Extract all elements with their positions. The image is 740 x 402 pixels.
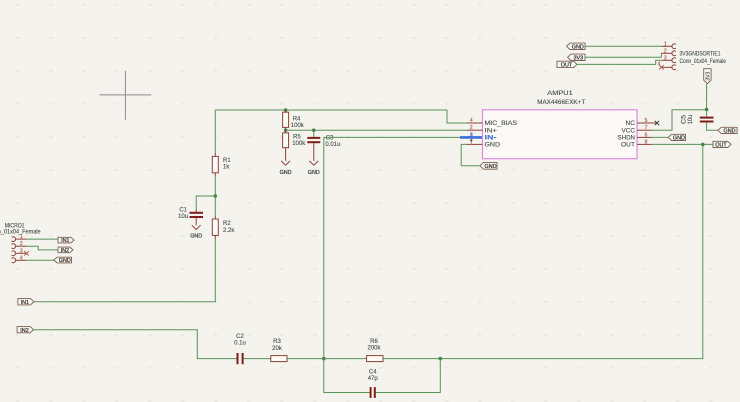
wire C2 to R3 — [244, 358, 271, 360]
svg-text:R4: R4 — [293, 116, 301, 122]
svg-text:Conn_01x04_Female: Conn_01x04_Female — [680, 59, 727, 65]
svg-text:GND: GND — [673, 136, 685, 142]
ground symbol below C1 — [192, 225, 201, 230]
wire R2 down to IN1 row — [34, 239, 216, 302]
svg-text:IN2: IN2 — [20, 328, 28, 334]
global label GND at C5 — [718, 127, 737, 134]
svg-text:2.2k: 2.2k — [223, 228, 235, 234]
wire OUT pin to label — [652, 143, 713, 145]
svg-text:C3: C3 — [326, 136, 334, 142]
svg-text:4: 4 — [20, 255, 23, 261]
node junction dot near pin 1 — [470, 139, 472, 141]
svg-text:10u: 10u — [688, 115, 694, 125]
svg-text:R5: R5 — [293, 134, 301, 140]
wire IN- horizontal — [324, 136, 460, 138]
pin 6 SHDN — [618, 132, 653, 141]
pin 5 NC with no-connect cross — [626, 118, 660, 127]
connector J2 pin 4 unconnected — [658, 62, 676, 70]
resistor R4 100k — [283, 110, 305, 130]
connector MICRO1 pin 2 — [12, 241, 27, 248]
resistor R3 — [271, 339, 287, 361]
svg-text:1: 1 — [20, 234, 23, 240]
wire IN- highlighted segment — [460, 136, 483, 139]
pin 2 IN+ — [467, 125, 498, 134]
svg-text:IN1: IN1 — [61, 238, 69, 244]
node junction feedback left — [322, 357, 326, 361]
svg-text:R2: R2 — [223, 221, 231, 227]
svg-text:GND: GND — [724, 128, 736, 134]
wire MIC_BIAS drop to pin 4 — [447, 110, 467, 123]
global label GND at connector — [54, 257, 72, 264]
svg-text:1: 1 — [470, 141, 473, 147]
global label OUT top left trio — [557, 61, 577, 68]
connector MICRO1 pin 3 unconnected — [12, 248, 29, 255]
svg-text:47p: 47p — [368, 376, 379, 382]
svg-text:3: 3 — [20, 248, 23, 254]
svg-text:MICRO1: MICRO1 — [5, 223, 25, 229]
capacitor C5 10u — [682, 114, 714, 124]
node junction R4/R5 IN+ — [284, 128, 288, 132]
capacitor C3 0.01u — [307, 130, 340, 149]
svg-text:IN-: IN- — [485, 135, 497, 142]
svg-text:7: 7 — [645, 125, 648, 131]
svg-text:C5: C5 — [682, 114, 688, 124]
wire SHDN to GND label — [652, 136, 668, 138]
svg-text:20k: 20k — [272, 346, 283, 352]
svg-text:NC: NC — [626, 120, 636, 127]
svg-text:AMPU1: AMPU1 — [547, 90, 573, 97]
wire between R1 and R2 — [214, 176, 216, 215]
svg-text:3V3: 3V3 — [574, 55, 584, 61]
svg-text:SHDN: SHDN — [618, 135, 636, 142]
svg-text:2: 2 — [664, 48, 667, 54]
svg-text:OUT: OUT — [621, 142, 635, 149]
global label IN1 (lower left) — [18, 299, 34, 306]
wire OUT to connector pin 3 — [577, 60, 661, 64]
svg-text:3: 3 — [470, 132, 473, 138]
node junction R4 top — [284, 108, 288, 112]
svg-text:3V3GNDSORTIE1: 3V3GNDSORTIE1 — [680, 52, 722, 58]
pin 8 OUT — [621, 139, 652, 148]
resistor R6 — [367, 339, 383, 362]
wire R3 to R6 with IN- tap — [287, 358, 367, 360]
svg-text:4: 4 — [470, 118, 473, 124]
resistor R2 — [212, 216, 235, 240]
svg-text:0.01u: 0.01u — [325, 142, 340, 148]
global label IN2 (lower left) — [17, 327, 33, 334]
svg-text:GND: GND — [59, 258, 71, 264]
connector J2 pin 3 — [661, 55, 676, 62]
svg-text:GND: GND — [572, 44, 584, 50]
global label GND below U1 — [480, 162, 497, 170]
svg-text:4: 4 — [658, 62, 661, 68]
sheet origin cross marker — [100, 71, 152, 120]
svg-text:100k: 100k — [291, 123, 305, 129]
svg-text:6: 6 — [645, 132, 648, 138]
svg-text:GND: GND — [308, 170, 320, 176]
svg-text:MIC_BIAS: MIC_BIAS — [485, 120, 518, 127]
svg-text:GND: GND — [485, 164, 497, 170]
svg-text:2: 2 — [470, 125, 473, 131]
power flag 3V3 vertical — [704, 69, 712, 84]
node junction feedback right — [439, 357, 443, 361]
node junction at C1 tap — [214, 194, 218, 198]
wire IN+ — [286, 129, 467, 131]
capacitor C4 47p — [368, 370, 379, 398]
wire 3V3 to connector pin 2 — [585, 53, 661, 57]
global label GND top left trio — [567, 43, 585, 50]
svg-text:3: 3 — [664, 55, 667, 61]
pin 3 IN- highlighted — [470, 132, 497, 141]
wire 3V3 down to C5 — [706, 84, 708, 117]
svg-text:10u: 10u — [178, 214, 188, 220]
svg-text:5: 5 — [645, 118, 648, 124]
svg-text:VCC: VCC — [622, 127, 636, 134]
resistor R1 — [212, 153, 231, 176]
wire C5 bottom to GND label — [707, 122, 718, 130]
svg-text:0.1u: 0.1u — [234, 341, 246, 347]
connector J2 3V3GNDSORTIE1 — [680, 52, 727, 65]
svg-text:R6: R6 — [370, 339, 378, 345]
global label GND at SHDN — [668, 134, 685, 141]
svg-text:IN+: IN+ — [485, 127, 498, 134]
svg-text:C2: C2 — [236, 334, 244, 340]
svg-text:R3: R3 — [273, 339, 281, 345]
wire MICRO1 pin2 to IN2 — [27, 246, 59, 250]
svg-text:1k: 1k — [223, 165, 230, 171]
svg-text:8: 8 — [645, 139, 648, 145]
svg-text:100k: 100k — [292, 141, 306, 147]
pin 4 MIC_BIAS — [467, 118, 517, 127]
svg-text:GND: GND — [190, 234, 202, 240]
svg-text:2: 2 — [20, 241, 23, 247]
connector J2 pin 1 — [661, 41, 676, 48]
wire VCC up to 3V3 rail — [652, 110, 707, 131]
wire C4 parallel loop — [324, 359, 441, 393]
node junction 3V3/VCC/C5 — [705, 108, 709, 112]
global label IN2 at connector — [58, 247, 73, 254]
svg-text:C4: C4 — [369, 370, 377, 376]
wire C1 branch — [196, 196, 215, 209]
svg-text:GND: GND — [485, 142, 501, 149]
wire left column above R1 — [214, 110, 216, 153]
svg-text:GND: GND — [280, 170, 292, 176]
svg-text:MAX4466EXK+T: MAX4466EXK+T — [537, 99, 585, 106]
connector J2 pin 2 — [661, 48, 676, 55]
svg-text:1: 1 — [664, 41, 667, 47]
global label IN1 at connector — [58, 237, 74, 244]
svg-text:C1: C1 — [179, 207, 187, 213]
node junction OUT — [701, 143, 705, 147]
svg-text:200k: 200k — [367, 346, 381, 352]
global label 3V3 top left trio — [568, 54, 585, 61]
wire MIC_BIAS top horizontal — [215, 109, 447, 111]
wire MICRO1 pin1 to IN1 — [27, 238, 59, 240]
wire MICRO1 pin4 to GND — [27, 259, 54, 261]
global label OUT right — [713, 141, 731, 148]
wire IN2 run to bottom rail — [34, 330, 237, 359]
capacitor C2 0.1u — [234, 334, 246, 364]
pin 7 VCC — [622, 125, 653, 134]
node junction C3 tap — [312, 128, 316, 132]
svg-text:IN2: IN2 — [61, 248, 69, 254]
wire IN- vertical feedback — [323, 137, 325, 358]
resistor R5 100k — [283, 130, 307, 151]
capacitor C1 10u — [178, 207, 203, 224]
ground symbol below C3 — [309, 149, 318, 165]
ground symbol below R5 — [281, 151, 290, 165]
pin 1 GND — [467, 141, 501, 149]
svg-text:R1: R1 — [223, 158, 231, 164]
op-amp U1 MAX4466 body — [483, 90, 638, 159]
connector MICRO1 labels — [0, 223, 41, 235]
wire GND to connector pin 1 — [585, 45, 661, 47]
connector MICRO1 pin 1 — [12, 234, 27, 241]
connector MICRO1 pin 4 — [12, 255, 27, 262]
svg-text:IN1: IN1 — [21, 300, 29, 306]
svg-text:OUT: OUT — [715, 143, 727, 149]
svg-text:3V3: 3V3 — [705, 72, 711, 81]
wire R6 to output rail — [383, 144, 703, 358]
wire U1 GND pin to label — [461, 144, 480, 165]
svg-text:OUT: OUT — [561, 63, 573, 69]
